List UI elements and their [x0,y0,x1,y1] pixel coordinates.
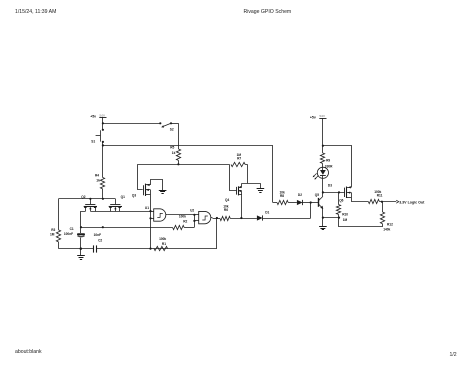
node: branch to Q6 drain [322,145,324,147]
wire: flag to node [102,117,104,129]
wire: C1 to ground [80,238,82,256]
svg-text:100k: 100k [159,237,166,241]
node: R10 tap [338,191,340,193]
wire: line B down to Q3 gate [138,164,143,189]
node: base node [310,201,312,203]
wire: main line B [138,164,230,166]
bottom rail [59,248,94,250]
wire: D1 riser to base node [310,203,312,219]
svg-text:1k: 1k [172,151,176,155]
node: Q3 column on bottom rail [149,248,151,250]
svg-text:Q5: Q5 [315,193,319,197]
wire: R7 left down to Q4 gate [230,164,237,190]
svg-text:1k: 1k [96,179,100,183]
svg-text:R2: R2 [183,219,187,223]
node: main line A tap [102,144,104,146]
top rail (gates of Q1,Q2) [59,198,116,200]
svg-text:C1: C1 [70,227,74,231]
wire: emitter to ground [322,218,324,227]
wire: to switch S2 [103,123,160,125]
wire: riser to R8 row [272,145,274,202]
footer page number [450,352,457,358]
svg-text:3.3V Logic Out: 3.3V Logic Out [399,200,425,204]
wire: S1 bottom down [102,142,104,178]
svg-text:D3: D3 [328,184,332,188]
svg-text:S2: S2 [170,127,174,131]
wire: line at y=227 from C1 column to R2 [80,226,82,228]
svg-text:+5v: +5v [90,115,96,119]
node: S1 top / S2 branch [102,122,104,124]
svg-text:D2: D2 [298,193,302,197]
svg-text:10nF: 10nF [94,233,101,237]
svg-text:R8: R8 [280,194,284,198]
svg-text:D1: D1 [265,210,269,214]
wire: S2 to riser [171,123,178,125]
svg-text:R10: R10 [342,213,348,217]
svg-text:5.0V: 5.0V [100,113,106,117]
node: output divider [381,201,383,203]
node: U1 input A [149,210,151,212]
svg-text:R9: R9 [326,158,330,162]
svg-text:S1: S1 [91,140,95,144]
svg-text:Q1: Q1 [121,195,125,199]
wire: U1 input B stub [151,218,154,220]
wire: U1 input A stub [151,211,154,213]
svg-text:Q6: Q6 [339,198,343,202]
svg-text:Q2: Q2 [81,195,85,199]
ground (Q3 drain) [159,190,167,192]
switch S1 (pushbutton) [102,129,104,131]
switch S2 [159,122,161,124]
svg-text:R4: R4 [95,174,99,178]
output flag 3.3V Logic Out [396,200,399,202]
svg-text:U2: U2 [190,208,194,212]
svg-text:R5: R5 [170,145,174,149]
node: U2 input B [193,220,195,222]
emitter rail [322,217,324,219]
svg-text:R12: R12 [387,222,393,226]
ground (Q4 drain) [257,188,265,190]
node: Q4 source junction [240,217,242,219]
wire: flag down to R9 [322,118,324,153]
wire: U2 output [213,218,221,220]
svg-text:1M: 1M [50,232,55,236]
wire: gate wire to Q6 [323,192,345,194]
wire: drain rail to U1 [90,211,150,213]
node: C1 on bottom rail [80,247,83,250]
wire: Q6 source to R11 [352,198,369,202]
wire: to ground (Q4 drain) [260,183,262,189]
svg-text:R6: R6 [224,208,228,212]
wire: Q2 source to C1 column [81,212,86,234]
header title [244,9,292,15]
svg-text:R11: R11 [377,194,383,198]
node: Q2 gate tap [89,198,91,200]
wire: Q4 drain stub up [241,183,243,187]
wire: R7 right to Q4 drain line [247,164,249,183]
header date [15,9,56,15]
wire: Q3 source down (node column) [150,195,152,249]
wire: branch over to Q6 drain [323,146,352,188]
ground (emitter) [319,226,327,228]
svg-text:Q3: Q3 [132,194,136,198]
node: R5 bottom on line B [177,163,179,165]
wire: main line A (S1 to right riser) [103,145,273,147]
svg-text:1M: 1M [343,218,348,222]
wire: Q3 drain to ground [151,180,163,191]
svg-text:C2: C2 [98,239,102,243]
svg-text:140k: 140k [383,228,390,232]
svg-text:U1: U1 [145,206,149,210]
svg-text:R1: R1 [162,242,166,246]
svg-text:Q4: Q4 [225,198,229,202]
node: S1 column bottom [102,226,104,228]
svg-text:100nF: 100nF [64,232,73,236]
wire: U1 output to U2 inputs [167,214,194,216]
wire: U2 input stubs [194,214,198,216]
wire: R10 bottom to R12 bottom [339,218,383,227]
footer url [15,349,42,355]
node: S1 column on top rail [102,198,104,200]
ground (C1) [77,255,85,257]
svg-text:R7: R7 [237,157,241,161]
wire: Q4 source down [241,195,243,218]
svg-text:5.0V: 5.0V [320,114,326,118]
svg-text:+5v: +5v [310,116,316,120]
node: U2 input A [193,214,195,216]
vertical tie at U2 inputs [194,215,196,227]
wire: left rail down to R3 [58,199,60,230]
node: U1 input B [149,217,151,219]
node: Q6 gate node (collector) [322,191,324,193]
node: feedback riser [216,217,218,219]
svg-text:100k: 100k [179,214,186,218]
wire: feedback riser down [216,218,218,249]
